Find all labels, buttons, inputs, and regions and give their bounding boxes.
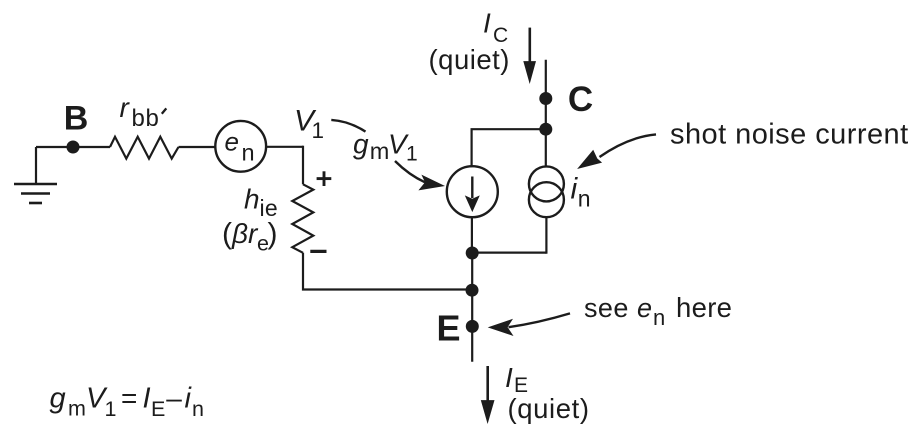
node B dot: [67, 141, 80, 154]
svg-text:shot noise current: shot noise current: [670, 118, 909, 150]
node E dot: [466, 320, 479, 333]
label see en here: [584, 292, 732, 330]
label gmV1 source: [353, 129, 418, 166]
svg-text:n: n: [192, 397, 204, 421]
svg-text:e: e: [637, 293, 652, 323]
annotation arrow gmV1 to source: [395, 161, 445, 190]
svg-text:(: (: [222, 218, 232, 251]
label plus: [317, 171, 332, 186]
label minus: [310, 250, 326, 253]
wire base-left: [36, 146, 110, 148]
wire left branch down: [471, 129, 473, 167]
svg-text:(quiet): (quiet): [508, 393, 590, 424]
label rbb': [120, 92, 167, 132]
svg-text:1: 1: [406, 143, 418, 166]
annotation curve V1 to gm: [331, 120, 365, 132]
junction dot branch bottom: [466, 247, 479, 260]
wire emitter chain: [471, 253, 473, 362]
svg-text:g: g: [50, 383, 66, 415]
svg-text:n: n: [242, 139, 255, 165]
current source gmV1 circle: [447, 166, 498, 217]
arrow IC current: [523, 28, 536, 84]
svg-text:(quiet): (quiet): [429, 44, 510, 75]
svg-text:n: n: [653, 305, 665, 330]
svg-text:1: 1: [105, 397, 117, 421]
svg-text:e: e: [225, 127, 239, 157]
annotation arrow shot noise to in: [577, 134, 656, 169]
wire V1 corner down: [302, 146, 304, 185]
svg-text:I: I: [505, 362, 513, 393]
svg-text:–: –: [166, 383, 182, 414]
svg-text:E: E: [436, 308, 460, 349]
svg-text:βr: βr: [231, 218, 259, 249]
svg-text:1: 1: [312, 118, 325, 143]
svg-text:n: n: [578, 186, 591, 212]
resistor hie zigzag vertical: [292, 184, 313, 253]
label V1 node: [294, 104, 324, 142]
wire bottom horizontal of branch: [472, 252, 547, 254]
ground: [14, 147, 57, 203]
wire en to node V1: [266, 146, 303, 148]
label en in circle: [225, 127, 255, 166]
wire hie bottom: [303, 253, 473, 290]
label hie: [244, 184, 278, 222]
label IC: [483, 8, 508, 48]
svg-text:I: I: [483, 8, 491, 39]
svg-text:h: h: [244, 184, 260, 215]
wire resistor to en source: [179, 146, 216, 148]
label in: [571, 173, 591, 212]
equation gmV1 = IE - in: [50, 383, 204, 422]
arrow inside gmV1 source: [465, 177, 480, 213]
wire collector top: [545, 60, 547, 167]
resistor R rbb' zigzag: [110, 137, 179, 159]
wire below gmV1: [471, 217, 473, 253]
wire top horizontal to gmV1 branch: [471, 128, 546, 130]
arrow IE current: [481, 366, 495, 424]
junction dot top: [539, 123, 552, 136]
svg-text:I: I: [143, 383, 151, 415]
annotation arrow see en to node E: [488, 313, 570, 336]
svg-text:m: m: [68, 397, 86, 421]
svg-text:): ): [268, 218, 278, 251]
junction dot hie return: [466, 284, 479, 297]
voltage noise source en circle: [215, 121, 266, 172]
wire below in source: [545, 217, 547, 254]
svg-text:bb: bb: [132, 105, 160, 132]
svg-text:=: =: [121, 383, 137, 414]
noise current source in (two circles): [529, 166, 564, 217]
svg-text:C: C: [568, 80, 593, 119]
svg-text:g: g: [353, 129, 369, 160]
svg-text:see: see: [584, 293, 629, 323]
svg-text:B: B: [64, 100, 89, 138]
svg-text:E: E: [151, 397, 165, 421]
label IE: [505, 362, 528, 397]
svg-text:here: here: [676, 292, 732, 323]
svg-text:m: m: [370, 138, 390, 164]
node C dot: [539, 92, 552, 105]
label (beta re): [222, 218, 278, 256]
